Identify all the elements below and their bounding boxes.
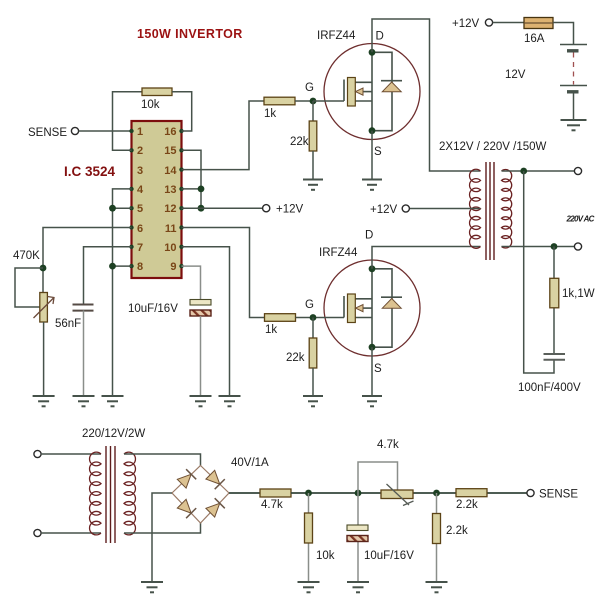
svg-text:I.C 3524: I.C 3524 xyxy=(64,164,116,179)
transformer T2 primary winding xyxy=(90,452,101,535)
wire pin2 to 10k left lead xyxy=(113,92,143,151)
svg-text:SENSE: SENSE xyxy=(28,127,67,139)
transformer T1 primary winding (center tapped) xyxy=(470,169,481,248)
ground (22k lower) xyxy=(303,396,323,406)
resistor 2.2k (shunt) leads xyxy=(436,493,438,514)
resistor 1k,1W leads xyxy=(553,247,555,279)
resistor 10k (divider) leads xyxy=(308,493,310,513)
preset 4.7k body xyxy=(381,490,413,499)
resistor 10k (divider) xyxy=(305,513,313,543)
svg-text:2.2k: 2.2k xyxy=(446,525,468,537)
transformer T1 core xyxy=(486,162,494,260)
svg-text:5: 5 xyxy=(137,203,143,215)
wire snubber left branch xyxy=(524,171,554,373)
svg-text:IRFZ44: IRFZ44 xyxy=(317,30,356,42)
svg-text:10uF/16V: 10uF/16V xyxy=(364,550,414,562)
terminal +12V (pin12) xyxy=(263,205,270,212)
wire pin7 to capacitor 56nF xyxy=(84,247,132,304)
junction G upper xyxy=(310,98,317,105)
wire pin6 to preset 470K xyxy=(43,228,132,293)
resistor 1k (upper gate) xyxy=(264,97,295,105)
wire 10k right lead to pin16 xyxy=(172,92,192,131)
svg-text:2X12V / 220V /150W: 2X12V / 220V /150W xyxy=(439,141,547,153)
ground (22k upper) xyxy=(303,180,323,190)
wire Q1 source to ground xyxy=(371,131,373,180)
wire 1k lower to G node xyxy=(296,317,314,319)
svg-text:IRFZ44: IRFZ44 xyxy=(319,247,358,259)
wire sense net main run xyxy=(291,492,456,494)
wire battery terminal to fuse xyxy=(493,22,524,24)
terminal +12V (battery) xyxy=(485,19,492,26)
transistor Q2 (lower) substrate arrow xyxy=(356,305,364,312)
resistor 2.2k (shunt) xyxy=(433,514,441,544)
preset 470K body xyxy=(40,293,48,323)
svg-text:15: 15 xyxy=(164,145,176,157)
svg-text:1k: 1k xyxy=(264,108,276,120)
battery 12V cell 2 xyxy=(560,86,587,92)
junction pin5 bus xyxy=(109,205,116,212)
svg-text:6: 6 xyxy=(137,223,143,235)
svg-text:2.2k: 2.2k xyxy=(456,499,478,511)
ground (10k divider) xyxy=(298,582,320,592)
terminal 220V output top xyxy=(574,167,581,174)
wire 56nF to ground xyxy=(83,310,85,396)
junction pin13 bus xyxy=(198,186,205,193)
svg-text:56nF: 56nF xyxy=(55,318,81,330)
wire T1 secondary top lead xyxy=(502,170,575,172)
svg-text:+12V: +12V xyxy=(452,18,480,30)
wire mains bottom lead xyxy=(41,532,101,534)
svg-text:4: 4 xyxy=(137,184,144,196)
svg-text:12: 12 xyxy=(164,203,176,215)
ground (battery) xyxy=(561,120,587,130)
wire T2 secondary bottom to bridge xyxy=(124,523,201,533)
svg-text:22k: 22k xyxy=(286,352,305,364)
wire fuse to battery xyxy=(553,23,574,45)
svg-text:10: 10 xyxy=(164,242,176,254)
IC pin junction dots xyxy=(129,129,183,268)
svg-text:8: 8 xyxy=(137,261,143,273)
svg-text:7: 7 xyxy=(137,242,143,254)
wire pin9 to capacitor 10uF xyxy=(182,266,201,299)
wire pin10 to ground xyxy=(182,247,230,396)
terminal 220V output bottom xyxy=(574,243,581,250)
svg-text:1k,1W: 1k,1W xyxy=(562,288,595,300)
transistor Q1 (upper) body diode xyxy=(381,80,402,82)
transistor Q2 (lower) channel and leads xyxy=(344,269,392,347)
svg-text:16A: 16A xyxy=(524,33,545,45)
wire Q1 gate lead xyxy=(313,100,344,102)
wire battery to ground xyxy=(573,94,575,121)
wire T2 secondary top to bridge xyxy=(124,454,201,466)
junction 10k node xyxy=(305,490,312,497)
wire Q1 drain to transformer primary top xyxy=(372,19,481,171)
transistor Q2 (lower) gate plate xyxy=(348,294,356,323)
svg-text:10uF/16V: 10uF/16V xyxy=(128,303,178,315)
resistor 2.2k (series to SENSE) xyxy=(456,489,487,497)
capacitor 10uF/16V (timing) negative plate xyxy=(190,310,211,316)
resistor 1k,1W xyxy=(550,278,559,308)
terminal mains top xyxy=(34,450,41,457)
preset 4.7k wiper bypass wire xyxy=(358,462,398,493)
wire 1k to gate node G (upper) xyxy=(295,100,313,102)
transistor Q1 (upper) substrate arrow xyxy=(356,88,364,95)
terminal SENSE (top left) xyxy=(71,127,78,134)
svg-text:S: S xyxy=(374,363,382,375)
terminal +12V (center tap) xyxy=(402,205,409,212)
svg-text:9: 9 xyxy=(170,261,176,273)
transformer T2 secondary winding xyxy=(124,452,135,535)
junction pin12 bus xyxy=(198,205,205,212)
capacitor 10uF/16V (filter) positive plate xyxy=(347,525,368,531)
svg-text:D: D xyxy=(365,230,373,242)
junction 470K top xyxy=(40,265,47,272)
transistor Q2 (lower) body diode xyxy=(381,296,402,298)
terminal SENSE (bottom) xyxy=(527,489,534,496)
svg-text:12V: 12V xyxy=(505,69,526,81)
svg-text:11: 11 xyxy=(165,223,177,235)
fuse 16A xyxy=(524,18,553,29)
svg-text:1k: 1k xyxy=(265,324,277,336)
battery internal dashed link xyxy=(573,53,575,85)
transistor Q2 (lower) drain junction xyxy=(369,265,376,272)
svg-text:22k: 22k xyxy=(290,136,309,148)
wire 470K wiper loop xyxy=(15,268,43,307)
junction pin8 bus xyxy=(109,263,116,270)
ground (Q2 source) xyxy=(362,396,382,406)
ground (Q1 source) xyxy=(362,180,382,190)
wire 470K to ground xyxy=(43,322,45,396)
transistor Q1 (upper) source junction xyxy=(369,127,376,134)
transistor IRFZ44 Q2 (lower) circle xyxy=(324,260,420,356)
wire pin11 to 1k lower xyxy=(182,228,265,318)
IC U1 SG3524 body xyxy=(132,121,182,278)
preset 470K wiper arrow xyxy=(34,297,55,319)
svg-text:+12V: +12V xyxy=(370,204,398,216)
ground (pin10) xyxy=(219,396,241,406)
wire 10uF to ground xyxy=(200,316,202,396)
wire mains top lead xyxy=(41,453,101,455)
resistor 10k (pins 2-16) xyxy=(142,88,172,96)
svg-text:16: 16 xyxy=(164,126,176,138)
svg-text:10k: 10k xyxy=(141,99,160,111)
ground (2.2k shunt) xyxy=(426,582,448,592)
ground (10uF timing) xyxy=(190,396,212,406)
svg-text:1: 1 xyxy=(137,126,143,138)
ground (470K) xyxy=(33,396,55,406)
junction secondary bottom xyxy=(551,243,558,250)
svg-text:220/12V/2W: 220/12V/2W xyxy=(82,428,145,440)
junction secondary top xyxy=(520,168,527,175)
resistor 1k (lower gate) xyxy=(265,314,296,322)
wire SENSE terminal to IC pin 1 xyxy=(79,130,132,132)
transistor Q2 (lower) source junction xyxy=(369,344,376,351)
wire Q2 source to ground xyxy=(371,347,373,396)
junction filter node xyxy=(355,490,362,497)
terminal mains bottom xyxy=(34,529,41,536)
svg-text:100nF/400V: 100nF/400V xyxy=(518,382,581,394)
capacitor 56nF xyxy=(73,305,94,311)
svg-text:14: 14 xyxy=(164,165,177,177)
transistor Q1 (upper) gate plate xyxy=(348,78,356,107)
capacitor 10uF/16V (filter) leads xyxy=(357,493,359,525)
resistor 22k (upper) with leads xyxy=(312,101,314,121)
transistor Q1 (upper) channel and leads xyxy=(344,52,392,130)
svg-text:+12V: +12V xyxy=(276,204,304,216)
junction G lower xyxy=(310,314,317,321)
svg-text:40V/1A: 40V/1A xyxy=(231,457,269,469)
svg-text:4.7k: 4.7k xyxy=(377,439,399,451)
wire T1 secondary bottom lead xyxy=(502,246,575,248)
transformer T2 core xyxy=(106,446,115,543)
svg-text:SENSE: SENSE xyxy=(539,489,578,501)
svg-text:D: D xyxy=(376,31,384,43)
svg-text:13: 13 xyxy=(164,184,176,196)
wire pin13 stub xyxy=(182,188,202,190)
wire Q2 drain to transformer primary bottom xyxy=(372,247,481,269)
transistor IRFZ44 Q1 (upper) circle xyxy=(324,44,420,140)
wire pin12 to +12V terminal xyxy=(182,207,263,209)
svg-text:G: G xyxy=(305,299,314,311)
bridge diode top-left xyxy=(177,474,191,488)
bridge rectifier 40V/1A frame xyxy=(172,466,229,524)
wire T1 center tap to +12V terminal xyxy=(410,208,481,210)
svg-text:G: G xyxy=(305,82,314,94)
IC pin numbers 1-8 (left column) xyxy=(137,126,144,273)
ground (bridge) xyxy=(141,582,163,592)
preset 4.7k wiper xyxy=(387,484,414,506)
bridge diode bottom-left xyxy=(177,499,191,513)
svg-text:3: 3 xyxy=(137,165,143,177)
wire pins 4,5,8 bus to ground xyxy=(113,189,132,396)
capacitor 10uF/16V (timing) positive plate xyxy=(190,300,211,306)
ground (filter cap) xyxy=(347,582,369,592)
resistor 22k (lower) with leads xyxy=(312,318,314,339)
wire Q2 gate lead xyxy=(313,317,344,319)
junction divider node xyxy=(433,490,440,497)
svg-text:10k: 10k xyxy=(316,550,335,562)
wire pin15-13-12 bus xyxy=(182,150,202,208)
wire pin14 to 1k upper xyxy=(182,101,265,170)
capacitor 100nF/400V xyxy=(544,354,566,360)
svg-text:220V AC: 220V AC xyxy=(566,215,595,224)
resistor 4.7k (series) xyxy=(260,489,291,497)
battery 12V cell 1 xyxy=(560,45,587,51)
wire bridge positive to 4.7k xyxy=(229,492,260,494)
capacitor 10uF/16V (filter) negative plate xyxy=(347,536,368,542)
ground (pins 4,5,8) xyxy=(102,396,124,406)
bridge diode bottom-right xyxy=(206,503,220,517)
IC pin numbers 16-9 (right column) xyxy=(164,126,177,273)
svg-text:470K: 470K xyxy=(13,250,40,262)
svg-text:2: 2 xyxy=(137,145,143,157)
transistor Q1 (upper) drain junction xyxy=(369,49,376,56)
svg-text:S: S xyxy=(374,146,382,158)
svg-text:150W INVERTOR: 150W INVERTOR xyxy=(137,27,243,41)
ground (56nF) xyxy=(73,396,95,406)
wire bridge negative to ground xyxy=(152,493,172,582)
svg-text:4.7k: 4.7k xyxy=(261,499,283,511)
bridge diode top-right xyxy=(206,470,220,484)
transformer T1 secondary winding xyxy=(502,170,512,248)
